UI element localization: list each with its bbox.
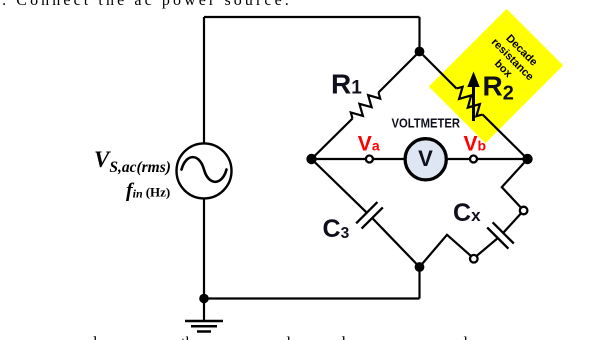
wire bottom rail [204, 297, 420, 299]
ac source VS [177, 143, 232, 198]
wire top-right drop to node [418, 17, 420, 52]
wire R2 upper segment [420, 52, 457, 89]
svg-text:V: V [418, 146, 433, 171]
node R right junction [522, 154, 532, 164]
wire top rail [204, 16, 420, 18]
wire left rail upper [203, 17, 205, 144]
node G ground junction [199, 294, 209, 304]
terminal Va [366, 156, 373, 163]
capacitor Cx plates [487, 222, 514, 248]
wire bridge horizontal right [446, 158, 528, 160]
voltmeter U1 [405, 139, 446, 180]
svg-text:VOLTMETER: VOLTMETER [392, 116, 461, 131]
node L left junction [306, 154, 316, 164]
node T top junction [415, 47, 425, 57]
ground [185, 299, 223, 332]
wire Cx jog to node B [420, 235, 472, 267]
wire Cx upper segment [503, 213, 521, 233]
svg-text:1. Connect the ac power source: 1. Connect the ac power source. [0, 0, 292, 9]
wire bottom riser to node B [418, 267, 420, 299]
wire left rail lower [203, 198, 205, 298]
node B bottom junction [415, 262, 425, 272]
resistor R2 zigzag [457, 87, 483, 116]
terminal Cx bottom [470, 255, 478, 263]
wire R1 upper segment [379, 52, 420, 93]
wire bridge horizontal left [312, 158, 406, 160]
capacitor C3 plates [356, 202, 383, 229]
R2 wiper arrow [467, 72, 479, 122]
wire Cx jog from node R [502, 159, 528, 211]
resistor R1 zigzag [351, 93, 380, 119]
wire R1 lower segment [312, 119, 353, 160]
decade resistance box (yellow rotated rect) [429, 9, 563, 143]
terminal Cx top [520, 207, 528, 215]
terminal Vb [470, 156, 477, 163]
wire C3 upper segment [312, 159, 367, 213]
wire C3 lower segment [372, 218, 419, 267]
wire R2 lower segment [483, 115, 528, 160]
wire Cx lower segment [477, 238, 498, 256]
